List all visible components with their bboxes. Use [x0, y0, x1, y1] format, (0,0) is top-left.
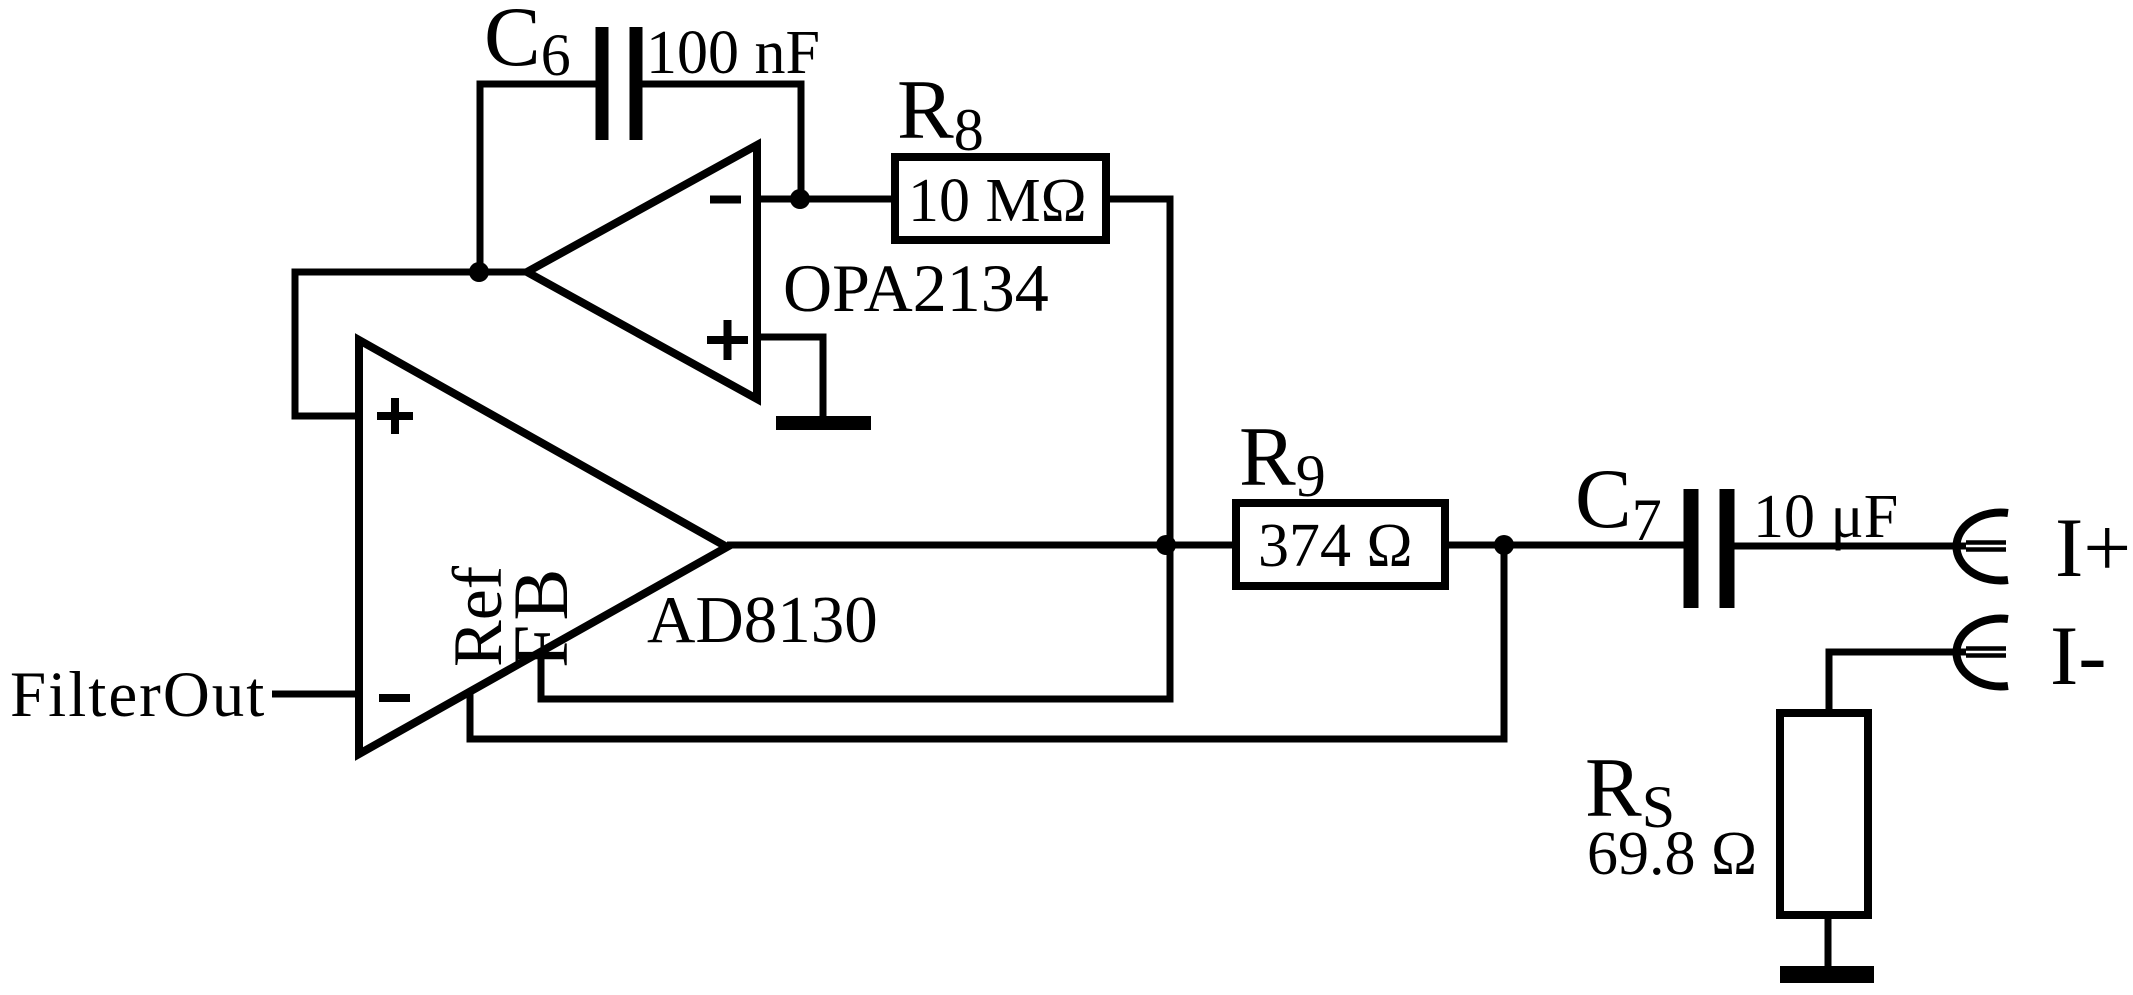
svg-text:10 μF: 10 μF — [1753, 483, 1898, 551]
svg-text:AD8130: AD8130 — [647, 583, 878, 657]
svg-text:I+: I+ — [2055, 501, 2131, 595]
svg-text:100 nF: 100 nF — [646, 19, 820, 87]
svg-text:69.8 Ω: 69.8 Ω — [1587, 820, 1757, 888]
svg-text:FB: FB — [497, 565, 584, 668]
svg-text:OPA2134: OPA2134 — [783, 250, 1049, 326]
svg-text:I-: I- — [2050, 609, 2107, 703]
svg-text:374 Ω: 374 Ω — [1258, 512, 1413, 580]
svg-text:FilterOut: FilterOut — [10, 659, 266, 731]
svg-text:10 MΩ: 10 MΩ — [908, 167, 1087, 235]
